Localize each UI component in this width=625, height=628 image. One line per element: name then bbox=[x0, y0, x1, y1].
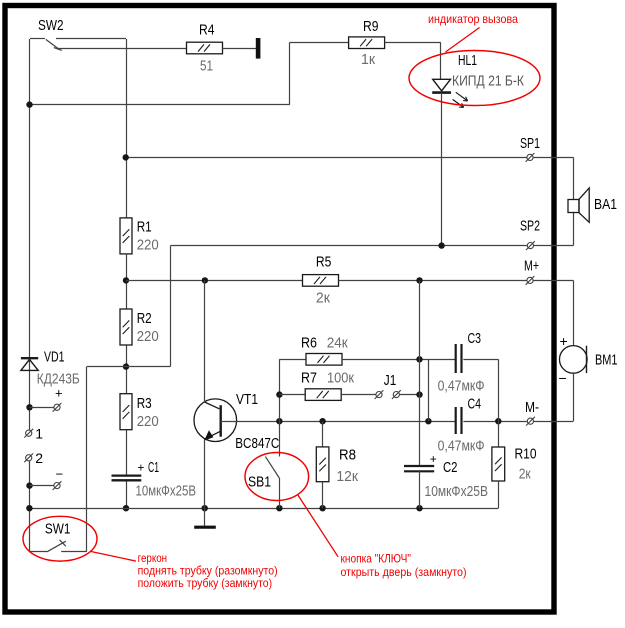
svg-text:51: 51 bbox=[200, 59, 213, 75]
svg-text:SW2: SW2 bbox=[38, 17, 64, 34]
svg-text:1: 1 bbox=[35, 426, 43, 442]
svg-text:C3: C3 bbox=[468, 330, 482, 347]
svg-text:10мкФх25В: 10мкФх25В bbox=[136, 484, 197, 500]
svg-text:HL1: HL1 bbox=[458, 52, 477, 69]
svg-text:M-: M- bbox=[525, 399, 539, 416]
svg-text:SP1: SP1 bbox=[520, 135, 540, 152]
svg-text:+: + bbox=[55, 386, 63, 401]
svg-text:220: 220 bbox=[137, 414, 159, 430]
svg-text:R6: R6 bbox=[301, 335, 317, 352]
svg-text:BA1: BA1 bbox=[594, 196, 617, 213]
svg-text:R4: R4 bbox=[199, 22, 215, 39]
svg-text:+: + bbox=[560, 333, 568, 349]
svg-text:VT1: VT1 bbox=[236, 391, 258, 408]
svg-text:R2: R2 bbox=[137, 310, 152, 327]
svg-text:100к: 100к bbox=[327, 371, 355, 387]
svg-text:1к: 1к bbox=[361, 52, 376, 68]
svg-text:R7: R7 bbox=[301, 370, 317, 387]
svg-text:0,47мкФ: 0,47мкФ bbox=[438, 379, 485, 395]
svg-text:R1: R1 bbox=[137, 219, 152, 236]
svg-text:C2: C2 bbox=[443, 460, 458, 476]
svg-text:+: + bbox=[430, 452, 437, 466]
svg-text:R5: R5 bbox=[316, 254, 332, 271]
svg-text:2к: 2к bbox=[316, 291, 331, 307]
svg-text:R8: R8 bbox=[339, 447, 356, 464]
svg-text:КИПД 21 Б-К: КИПД 21 Б-К bbox=[452, 74, 524, 90]
svg-text:кнопка "КЛЮЧ": кнопка "КЛЮЧ" bbox=[341, 552, 412, 566]
svg-text:R10: R10 bbox=[515, 446, 537, 463]
svg-text:2к: 2к bbox=[519, 467, 532, 483]
svg-text:M+: M+ bbox=[524, 258, 539, 275]
svg-text:+: + bbox=[137, 461, 144, 475]
svg-text:0,47мкФ: 0,47мкФ bbox=[438, 439, 485, 455]
svg-text:C1: C1 bbox=[148, 460, 159, 476]
svg-text:10мкФх25В: 10мкФх25В bbox=[425, 484, 489, 500]
svg-text:−: − bbox=[56, 467, 64, 482]
svg-text:R9: R9 bbox=[363, 18, 379, 35]
svg-text:SB1: SB1 bbox=[248, 474, 271, 491]
svg-text:SP2: SP2 bbox=[520, 218, 540, 235]
svg-text:BM1: BM1 bbox=[595, 352, 618, 369]
svg-text:R3: R3 bbox=[137, 395, 152, 412]
svg-text:220: 220 bbox=[137, 329, 159, 345]
svg-text:индикатор вызова: индикатор вызова bbox=[428, 12, 518, 26]
svg-text:−: − bbox=[559, 370, 567, 386]
svg-text:BC847C: BC847C bbox=[235, 435, 279, 452]
svg-text:SW1: SW1 bbox=[45, 521, 71, 538]
svg-text:220: 220 bbox=[137, 238, 159, 254]
svg-text:положить трубку (замкнуто): положить трубку (замкнуто) bbox=[138, 576, 273, 590]
svg-text:2: 2 bbox=[35, 450, 43, 466]
svg-text:VD1: VD1 bbox=[44, 349, 65, 366]
svg-text:24к: 24к bbox=[327, 336, 349, 352]
svg-text:C4: C4 bbox=[468, 396, 482, 413]
svg-text:J1: J1 bbox=[384, 372, 397, 389]
svg-text:12к: 12к bbox=[336, 469, 358, 485]
svg-text:открыть дверь (замкнуто): открыть дверь (замкнуто) bbox=[341, 565, 467, 579]
